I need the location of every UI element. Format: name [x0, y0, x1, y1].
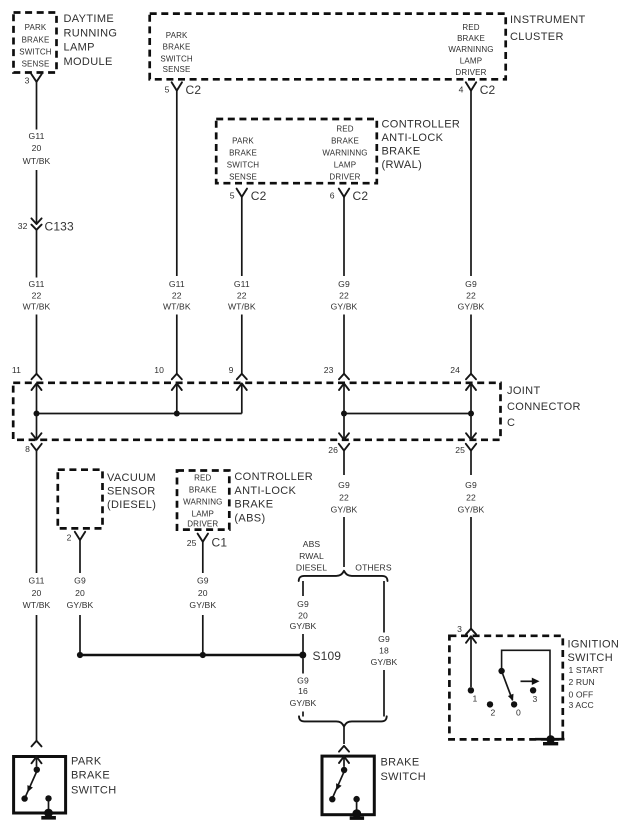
svg-text:BRAKE: BRAKE — [381, 757, 420, 769]
svg-text:SENSE: SENSE — [163, 65, 191, 74]
wire from vacuum sensor to splice bus — [79, 615, 81, 655]
wire from pin 8 to park brake switch — [36, 615, 38, 741]
svg-text:BRAKE: BRAKE — [234, 498, 273, 510]
wire label G9 16 GY/BK — [290, 676, 317, 708]
ignition rotation arrow — [521, 678, 540, 685]
wire into joint connector pin 11 — [36, 315, 38, 374]
junction dot at pin 24 leg — [468, 411, 474, 417]
ignition contact 3 dot — [530, 687, 536, 693]
svg-text:25: 25 — [455, 445, 465, 455]
svg-text:CLUSTER: CLUSTER — [510, 31, 564, 43]
svg-text:26: 26 — [328, 445, 338, 455]
svg-text:C133: C133 — [45, 220, 74, 234]
svg-text:RED: RED — [462, 23, 479, 32]
svg-text:ANTI-LOCK: ANTI-LOCK — [382, 132, 444, 144]
joint connector C box — [13, 383, 500, 440]
svg-text:22: 22 — [32, 291, 42, 301]
svg-text:(RWAL): (RWAL) — [382, 159, 423, 171]
wire label G11 22 WT/BK (column 3) — [228, 279, 256, 312]
wire label G9 22 GY/BK (column 5) — [458, 279, 485, 312]
branch brace (opening down) — [299, 571, 388, 581]
wire label G9 20 GY/BK (vacuum column) — [67, 576, 94, 610]
splice bus to S109 — [80, 654, 303, 656]
chevron at pin 10 wire end — [172, 374, 182, 380]
wire label G11 20 WT/BK (pin 8 column) — [23, 576, 51, 610]
wire label G9 20 GY/BK (ABS column) — [189, 576, 216, 610]
svg-text:5: 5 — [165, 84, 170, 94]
svg-text:GY/BK: GY/BK — [189, 600, 216, 610]
svg-text:G11: G11 — [29, 131, 45, 141]
svg-text:SWITCH: SWITCH — [381, 771, 426, 783]
svg-text:C: C — [507, 417, 515, 429]
svg-text:GY/BK: GY/BK — [331, 504, 358, 514]
instrument cluster park brake switch sense label — [160, 31, 193, 74]
park brake switch ground symbol — [41, 809, 56, 820]
park brake switch ground contact dot — [45, 795, 51, 801]
park brake switch ground stem — [48, 798, 50, 810]
RWAL controller name — [382, 119, 461, 172]
svg-text:(ABS): (ABS) — [234, 512, 265, 524]
svg-text:RED: RED — [336, 125, 353, 134]
brake switch box — [322, 756, 374, 815]
svg-text:1: 1 — [473, 694, 478, 704]
svg-text:G9: G9 — [465, 279, 477, 289]
park brake switch blade — [25, 772, 36, 797]
wire from instrument cluster pin 5 — [176, 91, 178, 276]
svg-text:ANTI-LOCK: ANTI-LOCK — [234, 485, 296, 497]
ignition contact 0 dot — [511, 701, 517, 707]
svg-text:20: 20 — [75, 588, 85, 598]
svg-text:25: 25 — [187, 538, 197, 548]
park brake switch open contact dot — [21, 795, 27, 801]
ignition entry arrow — [466, 636, 476, 687]
svg-text:JOINT: JOINT — [507, 385, 541, 397]
svg-text:22: 22 — [466, 291, 476, 301]
wire from instrument cluster pin 4 — [470, 91, 472, 276]
svg-text:20: 20 — [198, 588, 208, 598]
svg-text:G9: G9 — [378, 634, 390, 644]
svg-text:G9: G9 — [338, 480, 350, 490]
svg-text:23: 23 — [324, 365, 334, 375]
svg-text:5: 5 — [230, 190, 235, 200]
svg-text:LAMP: LAMP — [460, 57, 482, 66]
connector fork at vacuum sensor pin 2 — [75, 532, 85, 540]
wire from pin 8 (upper segment) — [36, 451, 38, 573]
svg-text:WT/BK: WT/BK — [23, 302, 51, 312]
svg-text:22: 22 — [172, 291, 182, 301]
svg-text:1 START: 1 START — [569, 665, 605, 675]
wire from RWAL pin 5 — [241, 197, 243, 276]
park brake switch entry arrow — [32, 757, 42, 767]
wire from RWAL pin 6 — [343, 197, 345, 276]
svg-text:BRAKE: BRAKE — [457, 34, 485, 43]
controller anti-lock brake (RWAL) box — [216, 119, 377, 183]
svg-text:10: 10 — [154, 365, 164, 375]
svg-text:SENSE: SENSE — [22, 59, 50, 68]
svg-text:WT/BK: WT/BK — [23, 156, 51, 166]
ignition contact 2 dot — [487, 701, 493, 707]
svg-text:22: 22 — [339, 492, 349, 502]
svg-text:LAMP: LAMP — [334, 160, 356, 169]
svg-text:9: 9 — [229, 365, 234, 375]
wire from vacuum sensor pin 2 — [79, 540, 81, 573]
svg-text:2: 2 — [491, 708, 496, 718]
ABS red brake warning lamp driver label — [183, 474, 222, 529]
svg-text:6: 6 — [330, 191, 335, 201]
wire into joint connector pin 9 — [241, 315, 243, 374]
svg-text:32: 32 — [18, 221, 28, 231]
svg-text:22: 22 — [237, 291, 247, 301]
svg-text:G11: G11 — [29, 279, 45, 289]
svg-text:BRAKE: BRAKE — [229, 149, 257, 158]
RWAL park brake switch sense label — [227, 137, 260, 182]
park brake switch name — [71, 755, 116, 796]
wire others leg to merge brace — [383, 670, 385, 717]
svg-text:RED: RED — [194, 474, 211, 483]
connector fork at RWAL pin 5 — [237, 189, 247, 197]
svg-text:0 OFF: 0 OFF — [569, 689, 594, 699]
svg-text:BRAKE: BRAKE — [189, 485, 217, 494]
svg-text:G9: G9 — [465, 480, 477, 490]
instrument cluster box — [150, 14, 506, 80]
connector fork below pin 25 — [466, 444, 476, 451]
svg-text:SWITCH: SWITCH — [160, 54, 193, 63]
svg-text:20: 20 — [298, 611, 308, 621]
internal bus joining pins 11 10 9 — [37, 413, 242, 415]
wire label G11 22 WT/BK (left column) — [23, 279, 51, 312]
svg-text:CONTROLLER: CONTROLLER — [234, 471, 313, 483]
svg-text:3: 3 — [457, 624, 462, 634]
daytime running lamp module name — [64, 13, 118, 68]
brake switch ground contact dot — [353, 796, 359, 802]
svg-text:PARK: PARK — [25, 23, 47, 32]
svg-text:DRIVER: DRIVER — [187, 520, 218, 529]
park brake switch box — [14, 757, 66, 814]
ignition switch box — [449, 636, 562, 740]
svg-text:0: 0 — [516, 708, 521, 718]
connector fork at ABS pin 25 — [198, 534, 208, 542]
svg-text:SWITCH: SWITCH — [71, 784, 116, 796]
chevron at pin 9 wire end — [237, 374, 247, 380]
svg-text:WARNING: WARNING — [183, 498, 222, 507]
svg-text:IGNITION: IGNITION — [568, 639, 620, 651]
connector fork below pin 8 — [31, 444, 41, 451]
svg-text:WARNINNG: WARNINNG — [448, 45, 493, 54]
wire from labels to merge brace (left) — [302, 712, 304, 717]
wire from pin 26 to branch brace — [343, 517, 345, 567]
connector fork at pin 3 — [31, 74, 41, 82]
svg-text:G11: G11 — [169, 279, 185, 289]
svg-text:LAMP: LAMP — [192, 509, 214, 518]
internal bus joining pins 23 24 — [344, 413, 471, 415]
svg-text:GY/BK: GY/BK — [290, 698, 317, 708]
instrument cluster red brake warning lamp driver label — [448, 23, 493, 77]
chevron at park brake switch wire end — [32, 741, 42, 747]
svg-text:WT/BK: WT/BK — [228, 302, 256, 312]
svg-text:PARK: PARK — [232, 137, 254, 146]
brake switch entry arrow — [339, 756, 349, 766]
chevron at pin 11 wire end — [32, 374, 42, 380]
svg-text:GY/BK: GY/BK — [331, 302, 358, 312]
svg-text:C2: C2 — [480, 83, 496, 97]
brake switch ground stem — [356, 799, 358, 812]
ignition contact 1 dot — [468, 687, 474, 693]
wire others leg (upper) — [383, 581, 385, 633]
svg-text:RWAL: RWAL — [299, 551, 324, 561]
wire into joint connector pin 24 — [470, 315, 472, 374]
pin 24 entry arrow — [466, 383, 476, 413]
svg-text:20: 20 — [32, 143, 42, 153]
wire from pin 26 (upper segment) — [343, 451, 345, 475]
svg-text:DRIVER: DRIVER — [455, 68, 486, 77]
svg-text:G9: G9 — [74, 576, 86, 586]
junction dot at pin 10 leg — [174, 411, 180, 417]
pin 10 entry arrow — [172, 383, 182, 413]
connector fork at instrument cluster pin 5 — [172, 82, 182, 90]
wire diesel leg to S109 — [302, 634, 304, 652]
svg-text:2 RUN: 2 RUN — [569, 677, 595, 687]
svg-text:GY/BK: GY/BK — [290, 621, 317, 631]
wire from DRLM pin 3 (upper segment) — [36, 82, 38, 130]
svg-text:BRAKE: BRAKE — [331, 137, 359, 146]
pin 11 entry arrow — [32, 383, 42, 413]
pin 25 exit arrow (joint connector) — [466, 414, 476, 440]
junction dot at pin 11 leg — [34, 411, 40, 417]
vacuum sensor name — [107, 472, 156, 511]
junction dot ABS leg — [200, 652, 206, 658]
svg-text:CONTROLLER: CONTROLLER — [382, 119, 461, 131]
svg-text:S109: S109 — [313, 649, 342, 663]
svg-text:22: 22 — [466, 492, 476, 502]
svg-text:RUNNING: RUNNING — [64, 27, 118, 39]
junction dot vacuum leg — [77, 652, 83, 658]
svg-text:INSTRUMENT: INSTRUMENT — [510, 14, 586, 26]
svg-text:20: 20 — [32, 588, 42, 598]
wire from pin 25 to ignition switch — [470, 517, 472, 629]
svg-text:24: 24 — [450, 365, 460, 375]
svg-text:PARK: PARK — [71, 755, 102, 767]
ignition rotor blade — [503, 674, 514, 701]
ignition ground bar on box edge — [535, 738, 565, 741]
ignition ground symbol — [543, 735, 558, 745]
branch label ABS RWAL DIESEL — [296, 539, 327, 573]
daytime running lamp module box U1 — [14, 13, 57, 73]
svg-text:3 ACC: 3 ACC — [569, 700, 594, 710]
svg-text:11: 11 — [12, 365, 21, 375]
in-line connector C133 — [31, 218, 41, 229]
svg-text:LAMP: LAMP — [64, 42, 95, 54]
svg-text:OTHERS: OTHERS — [355, 563, 392, 573]
chevron at pin 24 wire end — [466, 374, 476, 380]
svg-text:BRAKE: BRAKE — [163, 43, 191, 52]
chevron at ignition wire end — [466, 629, 476, 635]
wire below S109 — [302, 659, 304, 674]
RWAL red brake warning lamp driver label — [322, 125, 367, 182]
connector fork at RWAL pin 6 — [339, 189, 349, 197]
svg-text:4: 4 — [459, 84, 464, 94]
svg-text:WT/BK: WT/BK — [23, 600, 51, 610]
brake switch common contact dot — [341, 767, 347, 773]
svg-text:GY/BK: GY/BK — [458, 302, 485, 312]
chevron at brake switch wire end — [339, 746, 349, 752]
wire into joint connector pin 10 — [176, 315, 178, 374]
connector fork below pin 26 — [339, 444, 349, 451]
svg-text:(DIESEL): (DIESEL) — [107, 499, 156, 511]
wire into joint connector pin 23 — [343, 315, 345, 374]
wire label G11 20 WT/BK (left column top) — [23, 131, 51, 166]
svg-text:SWITCH: SWITCH — [19, 48, 52, 57]
svg-text:8: 8 — [25, 444, 30, 454]
svg-text:22: 22 — [339, 291, 349, 301]
svg-text:3: 3 — [25, 76, 30, 86]
ABS controller name — [234, 471, 313, 525]
wire label G9 20 GY/BK (diesel leg) — [290, 599, 317, 631]
splice S109 dot — [299, 652, 306, 659]
svg-text:G9: G9 — [297, 599, 309, 609]
wire diesel leg (upper) — [302, 581, 304, 596]
svg-text:VACUUM: VACUUM — [107, 472, 156, 484]
park brake switch common contact dot — [34, 767, 40, 773]
svg-text:G9: G9 — [338, 279, 350, 289]
instrument cluster name — [510, 14, 586, 43]
svg-text:GY/BK: GY/BK — [371, 657, 398, 667]
svg-text:G11: G11 — [29, 576, 45, 586]
wire from pin 25 (upper segment) — [470, 451, 472, 475]
wire below C133 — [36, 230, 38, 278]
svg-text:G9: G9 — [297, 676, 309, 686]
svg-text:3: 3 — [533, 694, 538, 704]
junction dot at pin 23 leg — [341, 411, 347, 417]
pin 23 entry arrow — [339, 383, 349, 413]
brake switch open contact dot — [329, 796, 335, 802]
controller anti-lock brake (ABS) box — [177, 471, 229, 530]
svg-text:SENSOR: SENSOR — [107, 486, 156, 498]
pin 9 entry arrow — [237, 383, 247, 413]
connector fork at instrument cluster pin 4 — [466, 82, 476, 90]
wire label G9 22 GY/BK (pin 25 column) — [458, 480, 485, 514]
ignition rotor pivot dot — [498, 668, 504, 674]
chevron at pin 23 wire end — [339, 374, 349, 380]
svg-text:PARK: PARK — [166, 31, 188, 40]
wire label G9 22 GY/BK (pin 26 column) — [331, 480, 358, 514]
svg-text:SWITCH: SWITCH — [227, 161, 260, 170]
wire segment above C133 — [36, 170, 38, 224]
pin 8 exit arrow — [32, 414, 42, 440]
svg-text:SENSE: SENSE — [229, 173, 257, 182]
merge brace (opening up) — [299, 716, 387, 726]
wire label G9 22 GY/BK (column 4) — [331, 279, 358, 312]
svg-text:DRIVER: DRIVER — [329, 173, 360, 182]
svg-text:WT/BK: WT/BK — [163, 302, 191, 312]
svg-text:MODULE: MODULE — [64, 56, 113, 68]
ignition position list — [569, 665, 605, 710]
svg-text:GY/BK: GY/BK — [458, 504, 485, 514]
wire from ABS pin 25 — [202, 542, 204, 573]
svg-text:BRAKE: BRAKE — [22, 35, 50, 44]
brake switch blade — [333, 772, 344, 797]
svg-text:DAYTIME: DAYTIME — [64, 13, 115, 25]
svg-text:SWITCH: SWITCH — [568, 652, 613, 664]
wire label G9 18 GY/BK (others leg) — [371, 634, 398, 667]
brake switch ground symbol — [350, 809, 364, 820]
pin 26 exit arrow — [339, 414, 349, 440]
svg-text:16: 16 — [298, 686, 308, 696]
svg-text:C2: C2 — [186, 83, 202, 97]
svg-text:C2: C2 — [353, 189, 369, 203]
ignition internal link — [502, 650, 550, 739]
svg-text:G11: G11 — [234, 279, 250, 289]
svg-text:ABS: ABS — [303, 539, 321, 549]
svg-text:BRAKE: BRAKE — [382, 146, 421, 158]
svg-text:C1: C1 — [212, 536, 228, 550]
svg-text:BRAKE: BRAKE — [71, 770, 110, 782]
svg-text:C2: C2 — [251, 189, 267, 203]
svg-text:DIESEL: DIESEL — [296, 563, 327, 573]
wire from ABS to splice bus — [202, 615, 204, 655]
wire from merge brace to brake switch — [343, 726, 345, 744]
svg-text:CONNECTOR: CONNECTOR — [507, 401, 581, 413]
daytime running lamp module pin function label — [19, 23, 52, 68]
joint connector C name — [507, 385, 581, 429]
svg-text:GY/BK: GY/BK — [67, 600, 94, 610]
svg-text:G9: G9 — [197, 576, 209, 586]
ignition switch name — [568, 639, 620, 665]
wire label G11 22 WT/BK (column 2) — [163, 279, 191, 312]
vacuum sensor box — [58, 470, 103, 529]
svg-text:WARNINNG: WARNINNG — [322, 149, 367, 158]
brake switch name — [381, 757, 426, 784]
svg-text:2: 2 — [67, 533, 72, 543]
svg-text:18: 18 — [379, 646, 389, 656]
